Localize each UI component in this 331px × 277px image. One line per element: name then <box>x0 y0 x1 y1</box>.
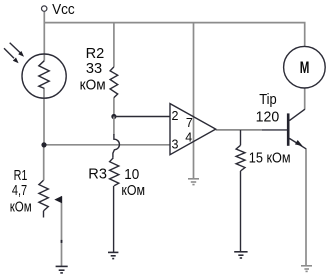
transistor collector lead <box>289 109 305 120</box>
wire op-amp pin 7 supply drop through to pin 4 ground <box>193 23 195 179</box>
wire wiper to ground <box>61 196 63 266</box>
svg-text:R3: R3 <box>88 167 107 183</box>
ground under emitter <box>301 266 312 272</box>
wire node B to op-amp pin 3 <box>44 144 170 146</box>
wire node A down to R3 hop <box>113 117 115 135</box>
svg-text:4: 4 <box>185 130 192 144</box>
wire R1 top lead <box>43 145 45 180</box>
resistor R3 <box>110 158 119 186</box>
Vcc terminal <box>42 6 47 11</box>
transistor Q1 Tip120 base bar <box>287 113 290 145</box>
svg-text:кОм: кОм <box>10 200 32 216</box>
ground under R1 wiper <box>56 266 68 273</box>
wire emitter to ground <box>305 148 307 265</box>
resistor 15 kOhm bottom lead <box>240 171 242 252</box>
wire node A to op-amp pin 2 <box>114 116 170 118</box>
wire motor bottom to collector <box>304 88 306 109</box>
wire top supply rail to motor <box>44 23 304 47</box>
transistor emitter lead <box>289 138 306 148</box>
svg-text:33: 33 <box>86 61 102 77</box>
svg-text:R1: R1 <box>14 168 28 184</box>
R1 wiper arrow <box>54 196 62 203</box>
svg-text:кОм: кОм <box>80 78 106 94</box>
svg-text:Vcc: Vcc <box>52 2 75 18</box>
resistor 15 kOhm top lead <box>240 130 242 145</box>
light arrow 1 <box>10 43 24 57</box>
svg-text:2: 2 <box>172 109 179 123</box>
ground under op-amp pin 4 <box>188 179 199 185</box>
motor M <box>284 46 326 88</box>
svg-text:кОм: кОм <box>121 183 145 199</box>
svg-text:15 кОм: 15 кОм <box>249 151 291 167</box>
resistor 15 kOhm <box>236 145 245 171</box>
resistor R1 bottom stub <box>43 211 45 218</box>
wiper wire tick <box>61 240 63 243</box>
light arrow 2 <box>4 48 19 63</box>
wire dark segment before base <box>262 129 287 131</box>
wire photoresistor bottom to node B <box>43 88 45 145</box>
wire R2 bottom lead to node A <box>113 98 115 117</box>
ground under R3 <box>108 252 118 258</box>
ground under 15 kOhm <box>234 252 247 258</box>
resistor R3 lead with hop over pin3 wire <box>113 134 120 158</box>
svg-text:M: M <box>300 59 310 77</box>
wire Vcc drop to photoresistor <box>43 12 45 61</box>
svg-text:R2: R2 <box>86 46 105 62</box>
wire op-amp output to transistor base <box>216 129 262 131</box>
transistor emitter arrow <box>295 140 303 146</box>
wire R2 drop from rail <box>113 23 115 67</box>
potentiometer R1 <box>39 180 48 211</box>
svg-text:4,7: 4,7 <box>12 183 27 199</box>
svg-text:Tip: Tip <box>259 92 277 108</box>
resistor R2 <box>110 67 118 98</box>
photoresistor circle <box>22 54 66 98</box>
node A junction dot <box>111 114 116 119</box>
resistor R3 bottom lead <box>113 186 115 252</box>
svg-text:3: 3 <box>172 138 179 152</box>
svg-text:120: 120 <box>256 109 280 125</box>
svg-text:7: 7 <box>186 116 193 130</box>
node B junction dot <box>41 142 46 147</box>
svg-text:10: 10 <box>124 167 139 183</box>
op-amp U1 <box>170 104 216 155</box>
photoresistor zigzag element <box>39 61 49 89</box>
